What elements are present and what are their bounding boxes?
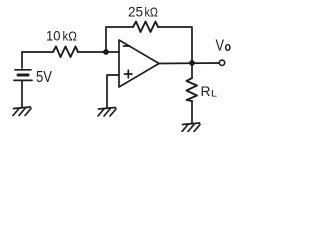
op-amp U1 triangle — [119, 40, 159, 87]
ground G2 — [99, 108, 116, 110]
resistor R2 25kΩ zigzag — [133, 22, 158, 33]
wire: op-amp output to terminal — [159, 62, 220, 65]
resistor RL zigzag — [187, 78, 198, 101]
battery V1 plates — [15, 69, 31, 71]
svg-text:o: o — [225, 40, 232, 54]
wire: non-inverting input to ground — [107, 75, 119, 107]
svg-text:kΩ: kΩ — [145, 6, 159, 20]
svg-text:5V: 5V — [36, 69, 52, 86]
op-amp minus sign — [124, 45, 130, 47]
wire: feedback left leg — [106, 27, 133, 52]
wire: RL to ground — [191, 101, 193, 123]
wire: resistor to op-amp minus input — [78, 51, 119, 53]
svg-text:R: R — [201, 83, 211, 99]
wire: battery bottom to ground — [21, 80, 23, 107]
svg-text:kΩ: kΩ — [63, 30, 78, 44]
wire: feedback right leg — [158, 27, 192, 63]
ground G1 — [14, 107, 31, 109]
svg-text:L: L — [211, 89, 217, 100]
wire: battery top corner to op-amp inverting input — [22, 52, 53, 68]
output terminal circle — [219, 60, 224, 65]
wire: output node down to RL — [191, 63, 193, 78]
resistor R1 10kΩ zigzag — [53, 47, 78, 58]
ground G3 — [183, 123, 200, 125]
op-amp plus sign — [125, 70, 133, 78]
svg-text:25: 25 — [128, 4, 143, 20]
svg-text:10: 10 — [46, 28, 61, 44]
node: junction dot at output — [189, 60, 195, 66]
node: junction dot at inverting input — [103, 49, 109, 55]
svg-text:V: V — [216, 38, 225, 55]
